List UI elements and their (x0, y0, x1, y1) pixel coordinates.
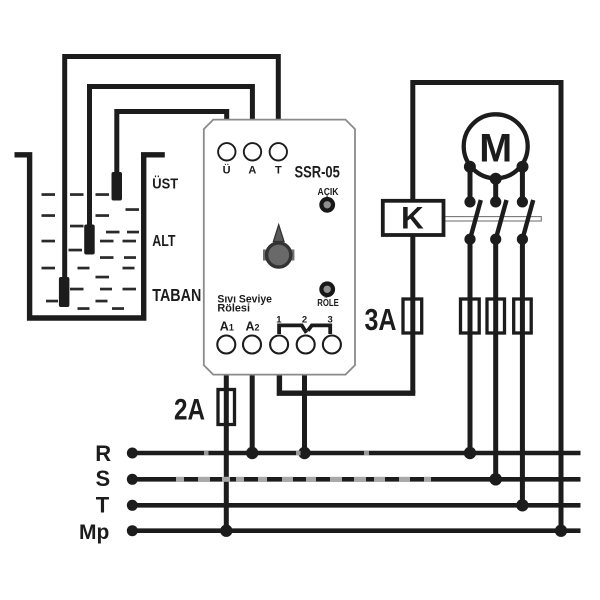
terminal T circle (270, 143, 287, 160)
motor line 2 (to S) (493, 179, 498, 202)
terminal U circle (218, 143, 235, 160)
fuse 2A (218, 390, 235, 425)
phase line T (131, 503, 581, 508)
svg-text:AÇIK: AÇIK (318, 187, 340, 198)
fuse motor line 2 (487, 299, 505, 333)
node motor2-S redraw (490, 473, 502, 485)
wire A2 to R (250, 374, 255, 453)
LED ROLE (319, 281, 335, 297)
terminal A1 circle (217, 336, 235, 354)
terminal 2 circle (297, 336, 315, 354)
svg-text:T: T (275, 165, 282, 177)
svg-text:2A: 2A (174, 393, 205, 426)
electrode ALT (84, 225, 95, 255)
svg-text:ÜST: ÜST (152, 176, 178, 193)
svg-text:T: T (96, 493, 110, 518)
phase line S (131, 477, 581, 482)
wire K line below box through 3A fuse (410, 234, 415, 393)
contactor blade 2 (496, 200, 506, 238)
svg-text:K: K (401, 200, 424, 236)
wire from relay terminal 1, down then right to 3A line (279, 374, 415, 393)
electrode UST (112, 172, 123, 201)
LED ACIK (319, 197, 335, 213)
svg-text:TABAN: TABAN (152, 285, 201, 305)
svg-text:Rölesi: Rölesi (217, 303, 250, 315)
terminal A circle (244, 143, 261, 160)
node term2-R (298, 447, 310, 459)
svg-text:Mp: Mp (79, 521, 109, 544)
fuse motor line 1 (461, 299, 480, 333)
terminal 1 circle (270, 336, 288, 354)
svg-text:ALT: ALT (152, 233, 175, 250)
mechanical link bar from K (444, 217, 542, 221)
wire terminal 2 to R (302, 374, 307, 453)
svg-text:SSR-05: SSR-05 (295, 164, 340, 182)
node motor1-R (464, 447, 476, 459)
relay contact 3 bar (308, 325, 330, 334)
motor line 3 (to T) (520, 167, 525, 202)
electrode TABAN (59, 277, 70, 307)
terminal A2 circle (243, 336, 261, 354)
water dashes (42, 193, 140, 310)
terminal 3 circle (323, 336, 341, 354)
fuse motor line 3 (514, 299, 532, 333)
line start dots (127, 448, 138, 537)
phase line R (131, 451, 581, 456)
knob pointer (273, 225, 284, 242)
contact dots upper (464, 196, 528, 207)
motor terminal dots (464, 161, 529, 185)
knob side grips (263, 250, 267, 261)
watermark faint nicks on R line (204, 451, 369, 456)
contactor K box (383, 201, 444, 235)
node motor3-T (516, 499, 528, 511)
phase line Mp (131, 528, 581, 533)
svg-text:A: A (248, 165, 256, 177)
svg-text:RÖLE: RÖLE (317, 296, 339, 309)
node motor2-S (490, 473, 502, 485)
motor line 1 (to R) (468, 167, 473, 202)
node A2-R (246, 447, 258, 459)
motor M circle (464, 114, 528, 178)
wire UST probe to terminal U (117, 112, 227, 174)
wire ALT probe to terminal A (90, 87, 253, 227)
wire A1 to Mp through 2A fuse (224, 374, 229, 531)
contactor blade 3 (523, 200, 533, 238)
tank (15, 155, 165, 318)
svg-text:M: M (479, 127, 512, 171)
contact dots lower (464, 234, 528, 245)
watermark (faint letter strokes over S line) (176, 477, 431, 482)
svg-text:Ü: Ü (223, 164, 231, 177)
junction dots (220, 447, 567, 537)
fuse 3A (403, 299, 422, 333)
node Kloop-Mp (555, 525, 567, 537)
knob (267, 243, 291, 267)
wire TABAN probe to terminal T (65, 57, 279, 279)
svg-text:A2: A2 (246, 319, 260, 333)
relay box SSR-05 (204, 120, 355, 375)
node A1-Mp (220, 525, 232, 537)
svg-text:3A: 3A (365, 303, 397, 337)
svg-text:S: S (96, 466, 111, 491)
wire K coil loop: K box top, up, right, down to Mp (413, 83, 561, 531)
svg-text:A1: A1 (220, 319, 234, 333)
svg-text:R: R (95, 441, 111, 466)
relay contact 1-2 (279, 325, 306, 334)
contactor blade 1 (471, 200, 481, 238)
